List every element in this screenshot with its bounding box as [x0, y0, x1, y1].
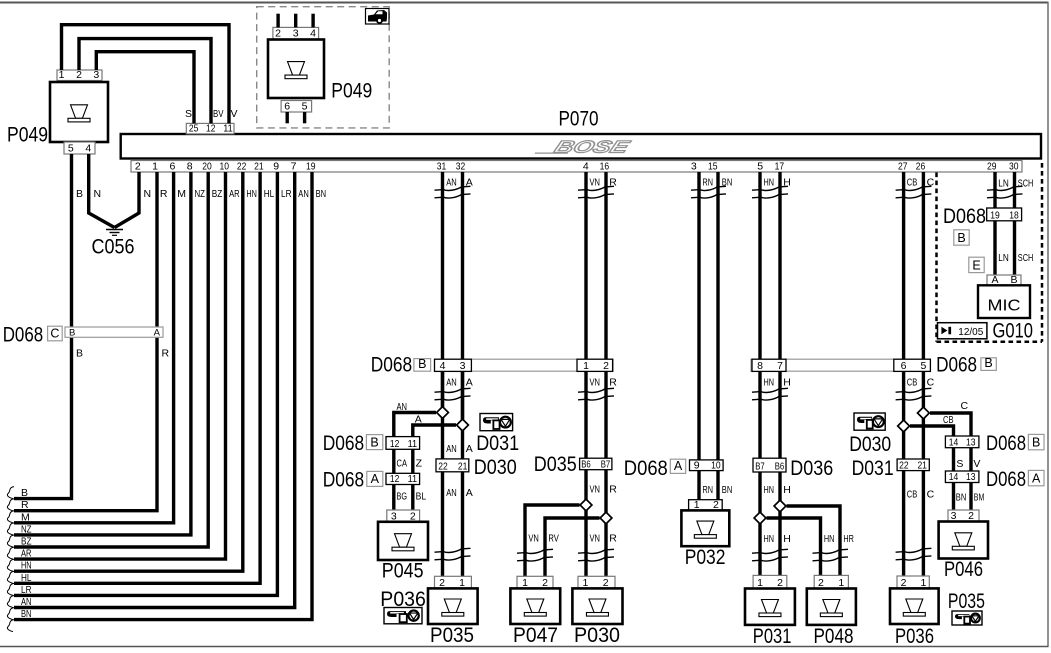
svg-text:B: B — [76, 188, 83, 200]
connector icon D030 D031 right — [849, 413, 893, 480]
speaker P036 right pin strip 2 1 — [897, 576, 929, 589]
svg-text:5: 5 — [302, 101, 308, 113]
svg-text:BM: BM — [974, 492, 985, 504]
twisted pair symbol — [578, 549, 614, 561]
junction node HN — [754, 512, 766, 524]
svg-text:D036: D036 — [790, 457, 833, 480]
svg-text:N: N — [94, 188, 102, 200]
labels RN BN mid — [703, 484, 733, 496]
svg-text:6: 6 — [169, 161, 175, 173]
pin box 1 2 — [577, 359, 613, 372]
speaker P045 — [378, 522, 428, 583]
svg-text:14: 14 — [949, 471, 959, 483]
svg-text:V: V — [231, 108, 238, 120]
svg-text:4: 4 — [85, 143, 91, 155]
twisted pair symbol — [517, 549, 553, 561]
svg-text:A: A — [154, 328, 161, 339]
svg-text:R: R — [609, 483, 617, 495]
svg-text:R: R — [609, 532, 617, 544]
wire RN lower — [697, 471, 700, 500]
wire A from P070 pin32 — [461, 172, 464, 420]
wire N from P049 pin4 to ground — [89, 154, 115, 228]
labels AN A top — [446, 177, 473, 189]
svg-text:VN: VN — [590, 177, 601, 189]
svg-text:MIC: MIC — [988, 298, 1021, 315]
junction node VN — [580, 499, 592, 511]
twisted pair symbol — [578, 388, 614, 400]
twisted pair symbol — [691, 186, 726, 198]
labels AN A above box — [446, 443, 473, 455]
svg-text:P035: P035 — [948, 590, 985, 613]
svg-text:25: 25 — [189, 123, 199, 135]
twisted pair symbol — [896, 548, 932, 560]
svg-text:R: R — [609, 376, 617, 388]
svg-text:S: S — [956, 458, 963, 470]
svg-text:13: 13 — [966, 436, 976, 448]
svg-text:P045: P045 — [382, 560, 424, 583]
connector D068 A pins 14 13 — [945, 468, 1044, 491]
svg-text:1: 1 — [583, 360, 589, 372]
wire R from P070 pin16 — [604, 172, 607, 371]
pin box 6 5 — [894, 359, 931, 372]
svg-text:E: E — [972, 258, 980, 272]
svg-text:D068: D068 — [986, 432, 1026, 455]
svg-text:P032: P032 — [685, 546, 726, 569]
svg-text:A: A — [466, 376, 473, 388]
wire AN from P070 pin 7 to harness — [14, 172, 295, 608]
connector D036 pins B7 B6 — [753, 457, 833, 480]
svg-text:D031: D031 — [852, 457, 894, 480]
svg-text:9: 9 — [694, 459, 700, 471]
svg-text:20: 20 — [202, 161, 212, 173]
svg-text:BV: BV — [213, 108, 224, 120]
svg-text:HN: HN — [764, 376, 775, 388]
svg-text:18: 18 — [1009, 210, 1019, 222]
wire AN from P070 pin31 — [441, 172, 444, 407]
svg-text:R: R — [160, 188, 168, 200]
svg-text:BN: BN — [21, 608, 32, 620]
svg-text:B: B — [76, 348, 83, 360]
wire HL from P070 pin 21 to harness — [14, 172, 260, 583]
svg-text:P070: P070 — [559, 108, 599, 131]
svg-text:D068: D068 — [323, 432, 365, 455]
svg-text:AN: AN — [446, 487, 457, 499]
svg-text:3: 3 — [93, 69, 99, 81]
svg-text:P031: P031 — [753, 625, 792, 648]
connector E box — [969, 257, 984, 272]
svg-text:15: 15 — [708, 161, 718, 173]
svg-text:1: 1 — [152, 161, 158, 173]
connector pins 22 21 right — [897, 459, 929, 471]
svg-text:4: 4 — [310, 28, 316, 40]
svg-text:VN: VN — [590, 483, 601, 495]
twisted pair symbol — [752, 388, 788, 400]
svg-text:22: 22 — [899, 459, 909, 471]
branch wire C to D068 pin13 — [930, 400, 971, 436]
connector D068 C — [3, 324, 163, 347]
svg-text:P030: P030 — [574, 624, 620, 647]
svg-text:SCH: SCH — [1018, 252, 1034, 264]
svg-text:M: M — [177, 188, 186, 200]
dashed option box — [257, 7, 390, 128]
labels HN HR — [824, 533, 854, 545]
amplifier P070 box — [121, 108, 1041, 159]
branch wire HN to P048 pin2 — [767, 518, 821, 577]
svg-text:HL: HL — [264, 188, 275, 200]
connector icon P036 left — [384, 608, 422, 624]
speaker P031 — [745, 589, 795, 648]
svg-text:D068: D068 — [323, 469, 365, 492]
svg-text:HN: HN — [824, 533, 835, 545]
svg-text:22: 22 — [237, 161, 247, 173]
svg-text:5: 5 — [68, 143, 74, 155]
svg-text:LR: LR — [21, 584, 32, 596]
wire H from P070 pin17 — [778, 172, 781, 371]
date code box 12/05 — [938, 323, 987, 339]
twisted pair symbol — [987, 186, 1023, 198]
labels CB C mid — [907, 489, 935, 501]
svg-text:12/05: 12/05 — [958, 326, 983, 338]
svg-text:HR: HR — [843, 533, 854, 545]
svg-text:B: B — [1032, 436, 1040, 450]
twisted pair symbol — [752, 186, 788, 198]
svg-text:AN: AN — [397, 401, 408, 413]
svg-text:C: C — [927, 376, 935, 388]
speaker P035 — [428, 588, 478, 647]
svg-text:6: 6 — [901, 360, 907, 372]
wire AR from P070 pin 10 to harness — [14, 172, 226, 559]
svg-text:AR: AR — [21, 548, 32, 560]
speaker P032 pin strip 1 2 — [689, 499, 723, 511]
twisted pair symbol — [896, 186, 932, 198]
twisted pair symbol — [578, 186, 614, 198]
wire NZ from P070 pin 8 to harness — [14, 172, 191, 535]
junction node A — [457, 419, 469, 431]
svg-text:P049: P049 — [331, 79, 372, 102]
svg-text:A: A — [415, 414, 422, 426]
labels VN R mid — [590, 483, 618, 495]
svg-text:19: 19 — [990, 210, 1000, 222]
wire pin3 to pin25 S — [96, 52, 194, 124]
wire pin1 to pin11 V — [62, 25, 230, 124]
svg-text:D068: D068 — [943, 205, 986, 228]
svg-text:8: 8 — [757, 360, 763, 372]
svg-text:P048: P048 — [814, 625, 854, 648]
svg-text:21: 21 — [254, 161, 264, 173]
svg-text:D068: D068 — [936, 353, 977, 376]
svg-text:S: S — [185, 108, 192, 120]
connector icon D031 D030 left — [474, 414, 519, 479]
speaker P049 option — [268, 40, 372, 103]
svg-text:10: 10 — [220, 161, 230, 173]
speaker P046 pin strip 3 2 — [948, 510, 979, 522]
svg-text:32: 32 — [456, 161, 466, 173]
svg-text:HN: HN — [246, 188, 257, 200]
svg-text:B6: B6 — [775, 461, 785, 473]
svg-text:G010: G010 — [993, 320, 1034, 343]
svg-text:C: C — [961, 400, 969, 412]
svg-text:V: V — [973, 458, 980, 470]
svg-text:D068: D068 — [624, 457, 668, 480]
wire SCH from P070 pin30 — [1013, 172, 1016, 208]
labels CB C top — [907, 177, 935, 189]
twisted pair symbol — [752, 549, 788, 561]
wire R from P070 pin1 to harness — [14, 172, 170, 511]
labels LN SCH top — [998, 178, 1033, 190]
svg-text:R: R — [21, 499, 29, 511]
pin box 4 3 — [435, 359, 472, 372]
wire pin2 to pin12 BV — [79, 39, 211, 124]
svg-text:A: A — [466, 487, 473, 499]
labels CB C below bar — [907, 376, 935, 388]
svg-text:HN: HN — [764, 177, 775, 189]
svg-text:AN: AN — [446, 443, 457, 455]
labels HN H below bar — [764, 376, 791, 388]
svg-text:A: A — [371, 472, 380, 486]
svg-text:17: 17 — [775, 161, 785, 173]
svg-text:LR: LR — [281, 188, 292, 200]
svg-text:1: 1 — [59, 69, 65, 81]
connector pins 22 21 left — [436, 459, 469, 473]
wire CA — [394, 449, 407, 473]
svg-text:P035: P035 — [430, 624, 474, 647]
svg-text:D068: D068 — [371, 353, 413, 376]
labels RN BN top — [703, 177, 733, 189]
svg-text:5: 5 — [757, 161, 763, 173]
svg-text:CB: CB — [907, 489, 918, 501]
svg-text:R: R — [162, 348, 170, 360]
svg-text:BZ: BZ — [212, 188, 223, 200]
junction node CB — [898, 420, 910, 432]
label G010 — [993, 320, 1034, 343]
labels AN A below box — [446, 487, 473, 499]
wire BN from P070 pin 19 to harness — [14, 172, 312, 620]
svg-text:C: C — [50, 327, 59, 341]
svg-text:11: 11 — [408, 473, 418, 485]
wire VN from P070 pin4 — [584, 172, 587, 371]
svg-text:2: 2 — [275, 28, 281, 40]
labels VN R top — [590, 177, 618, 189]
svg-text:26: 26 — [916, 161, 926, 173]
svg-text:VN: VN — [590, 376, 601, 388]
speaker P031 pin strip 1 2 — [753, 575, 787, 589]
wire colour labels R M NZ BZ AR HN HL LR AN BN — [160, 188, 326, 200]
svg-text:7: 7 — [291, 161, 297, 173]
connector D068 A pins 12 11 — [323, 469, 420, 492]
labels VN R lower — [590, 532, 618, 544]
svg-text:BN: BN — [722, 484, 733, 496]
harness bundle labels and break hooks — [7, 487, 32, 632]
svg-text:RN: RN — [703, 484, 714, 496]
speaker P047 pin strip 1 2 — [517, 576, 553, 589]
svg-text:CB: CB — [907, 376, 918, 388]
junction node C — [918, 407, 930, 419]
wire Z — [413, 449, 423, 473]
svg-text:CB: CB — [907, 177, 918, 189]
connector D035 pins B6 B7 — [534, 453, 612, 476]
wire HN from P070 pin5 — [758, 172, 761, 371]
wire M from P070 pin 6 to harness — [14, 172, 174, 523]
svg-text:7: 7 — [777, 360, 783, 372]
wire LN lower — [993, 221, 996, 275]
speaker P030 pin strip 1 2 — [578, 576, 615, 589]
wire SCH lower — [1013, 221, 1016, 275]
svg-text:D030: D030 — [474, 456, 517, 479]
svg-text:H: H — [783, 376, 791, 388]
svg-text:12: 12 — [390, 438, 400, 450]
svg-text:5: 5 — [920, 360, 926, 372]
wire B vertical to harness — [14, 337, 83, 499]
branch wire A to D068 pin11 — [413, 414, 456, 438]
svg-text:8: 8 — [187, 161, 193, 173]
svg-text:C056: C056 — [92, 236, 135, 259]
svg-text:A: A — [466, 443, 473, 455]
svg-text:P036: P036 — [895, 625, 934, 648]
microphone pin strip A B — [987, 274, 1021, 286]
wire BZ from P070 pin 20 to harness — [14, 172, 208, 547]
svg-text:2: 2 — [76, 69, 82, 81]
svg-text:12: 12 — [390, 473, 400, 485]
svg-text:H: H — [783, 533, 791, 545]
speaker P035 pin strip 2 1 — [435, 576, 472, 589]
svg-text:HL: HL — [21, 572, 32, 584]
svg-text:D035: D035 — [534, 453, 577, 476]
svg-text:B7: B7 — [601, 458, 611, 470]
speaker P048 pin strip 2 1 — [814, 575, 848, 589]
svg-text:29: 29 — [987, 161, 997, 173]
twisted pair symbol — [435, 186, 471, 198]
svg-text:9: 9 — [273, 161, 279, 173]
label P036 left — [380, 588, 426, 611]
wire R lower — [604, 371, 607, 577]
microphone MIC — [978, 285, 1030, 318]
wire LR from P070 pin 9 to harness — [14, 172, 277, 595]
svg-text:RN: RN — [703, 177, 714, 189]
label S — [185, 108, 192, 120]
svg-text:BG: BG — [397, 491, 408, 503]
svg-text:AN: AN — [298, 188, 309, 200]
wire LN from P070 pin29 — [993, 172, 996, 208]
junction node H — [774, 500, 786, 512]
svg-text:30: 30 — [1009, 161, 1019, 173]
wire RN from P070 pin3 — [697, 172, 700, 460]
wire S — [954, 448, 964, 471]
svg-text:LN: LN — [998, 252, 1009, 264]
svg-text:CB: CB — [943, 414, 954, 426]
junction node AN — [437, 407, 449, 419]
svg-text:H: H — [783, 484, 791, 496]
labels HN H lower — [764, 533, 791, 545]
svg-text:HN: HN — [764, 484, 775, 496]
svg-text:19: 19 — [306, 161, 316, 173]
svg-text:11: 11 — [223, 123, 233, 135]
svg-text:3: 3 — [293, 28, 299, 40]
svg-text:P047: P047 — [513, 624, 558, 647]
twisted pair symbol — [813, 549, 849, 561]
branch wire CB to D068 pin14 — [910, 414, 954, 436]
svg-text:AN: AN — [446, 376, 457, 388]
branch wire RV to P047 pin2 — [545, 518, 600, 577]
wire CB from P070 pin27 — [902, 172, 905, 371]
svg-text:M: M — [21, 511, 30, 523]
twisted pair symbol — [435, 548, 471, 560]
svg-text:14: 14 — [949, 436, 959, 448]
svg-text:21: 21 — [458, 461, 468, 473]
connector D068 B pins 14 13 — [945, 432, 1044, 455]
svg-text:12: 12 — [206, 123, 216, 135]
connector D068 B pins 12 11 — [323, 432, 420, 455]
connector strip pins 25 12 11 on P070 top — [186, 123, 234, 135]
speaker P049 — [7, 82, 108, 147]
wire B from P049 pin5 to D068C — [72, 154, 84, 327]
svg-text:A: A — [1032, 472, 1041, 486]
wire V — [971, 448, 980, 471]
connector strip of P070 pins 2 1 6 8 20 10 22 21 9 7 19 31 32 4 16 3 15 5 17 27 26 29 30 — [131, 161, 1022, 173]
speaker P047 — [510, 588, 560, 647]
svg-text:NZ: NZ — [21, 523, 32, 535]
svg-text:10: 10 — [711, 459, 721, 471]
svg-text:AR: AR — [229, 188, 240, 200]
wire BL — [413, 485, 426, 511]
labels LN SCH lower — [998, 252, 1033, 264]
twisted pair symbol — [435, 388, 471, 400]
svg-text:B: B — [984, 356, 992, 370]
svg-text:31: 31 — [437, 161, 447, 173]
svg-text:VN: VN — [590, 532, 601, 544]
speaker P046 — [939, 522, 988, 582]
svg-text:22: 22 — [438, 461, 448, 473]
svg-text:B: B — [370, 435, 378, 449]
speaker P049 bottom pin strip 5 4 — [64, 142, 95, 155]
labels VN RV — [528, 532, 559, 544]
wire H lower — [778, 371, 781, 577]
svg-text:D031: D031 — [476, 432, 519, 455]
connector D068 B horizontal bar right — [751, 353, 996, 376]
svg-text:HN: HN — [21, 560, 32, 572]
connector D068 B horizontal bar left — [371, 353, 613, 376]
twisted pair symbol — [896, 388, 932, 400]
label V — [231, 108, 238, 120]
svg-text:BN: BN — [316, 188, 327, 200]
svg-text:A: A — [674, 459, 683, 473]
junction node R — [600, 512, 612, 524]
svg-text:P049: P049 — [7, 124, 48, 147]
svg-text:AN: AN — [446, 177, 457, 189]
branch wire VN to P047 pin1 — [525, 505, 580, 577]
svg-text:27: 27 — [898, 161, 908, 173]
svg-text:BN: BN — [956, 492, 967, 504]
svg-text:NZ: NZ — [195, 188, 206, 200]
svg-text:B: B — [21, 487, 28, 499]
svg-text:2: 2 — [135, 161, 141, 173]
svg-text:4: 4 — [440, 360, 446, 372]
speaker P049 option top pin strip 2 3 4 — [273, 27, 319, 39]
svg-text:D068: D068 — [3, 324, 44, 347]
svg-text:6: 6 — [284, 101, 290, 113]
svg-text:BZ: BZ — [21, 536, 32, 548]
speaker P036 right — [890, 588, 939, 648]
wire BN from P070 pin15 — [716, 172, 719, 460]
wire HN lower — [758, 371, 761, 577]
label P035 right — [948, 590, 985, 613]
wire AN lower — [441, 371, 444, 577]
svg-text:Z: Z — [416, 458, 423, 470]
svg-text:RV: RV — [548, 532, 559, 544]
svg-text:C: C — [927, 489, 935, 501]
speaker P049 top pin strip 1 2 3 — [57, 69, 102, 81]
wire VN lower — [584, 371, 587, 577]
wire BN — [954, 483, 967, 511]
